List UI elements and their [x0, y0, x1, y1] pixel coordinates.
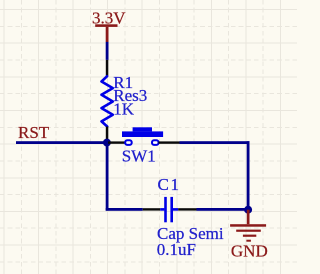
wire right vertical: [247, 141, 250, 210]
bar 2: [236, 230, 261, 232]
svg-text:C1: C1: [158, 175, 181, 194]
zigzag body: [102, 76, 113, 126]
right plate: [170, 197, 173, 222]
bar 3: [243, 235, 256, 237]
resistor R1: [102, 60, 148, 141]
pin 2 (right): [178, 208, 196, 210]
right contact: [152, 140, 159, 145]
wire RST horizontal: [16, 141, 107, 144]
svg-text:SW1: SW1: [122, 147, 156, 166]
switch SW1: [108, 127, 180, 165]
wire from C1 to right node: [197, 208, 249, 211]
pin 1 (left): [108, 141, 125, 143]
wire from SW1 to right corner: [180, 141, 250, 144]
svg-text:0.1uF: 0.1uF: [157, 240, 196, 259]
svg-text:RST: RST: [18, 123, 50, 142]
wire from power port to resistor: [106, 42, 109, 60]
wire bottom horizontal (left of C1): [106, 208, 143, 211]
junction node B (C1 / GND): [244, 206, 252, 214]
left contact: [125, 140, 132, 145]
stem: [247, 210, 250, 225]
pin 2 (bottom): [106, 127, 109, 141]
button actuator: [122, 131, 163, 137]
power port 3.3V: [92, 8, 126, 42]
pin 2 (right): [159, 141, 180, 143]
pin 1 (left): [143, 208, 161, 210]
junction node A (RST / R1 / SW1): [103, 139, 111, 147]
left plate stub: [160, 208, 164, 211]
bar 4: [246, 240, 251, 242]
ground GND: [230, 210, 268, 261]
left plate: [164, 197, 167, 222]
right plate stub: [173, 208, 178, 211]
wire down from node A: [106, 143, 109, 211]
bar 1: [230, 224, 266, 227]
pin 1 (top): [106, 60, 109, 77]
svg-text:1K: 1K: [113, 100, 135, 119]
capacitor C1: [143, 175, 224, 259]
svg-text:GND: GND: [231, 242, 268, 261]
net label RST: [18, 123, 50, 142]
